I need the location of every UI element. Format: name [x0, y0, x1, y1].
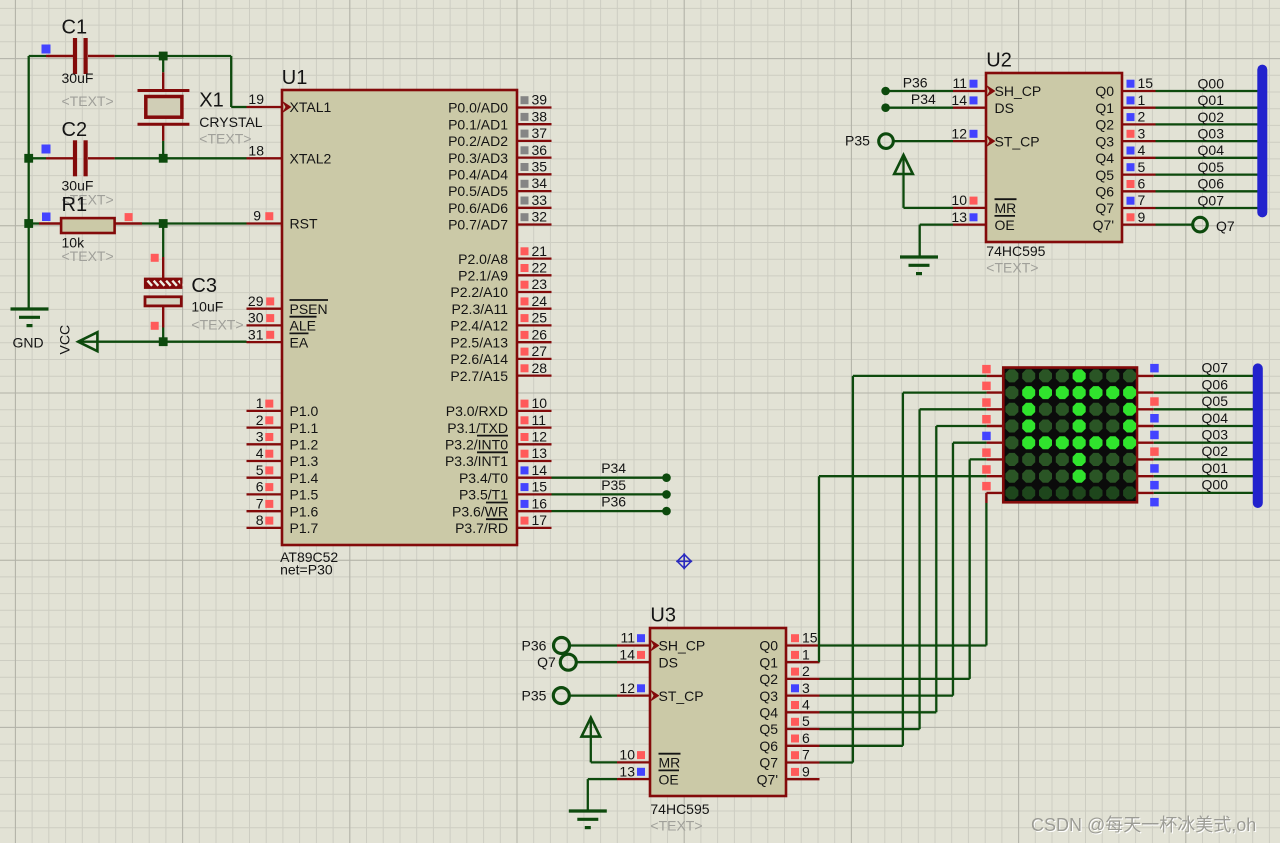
terminal Q7 out U2	[1156, 217, 1208, 232]
label U2	[986, 50, 1012, 72]
svg-text:P1.7: P1.7	[290, 520, 319, 536]
wire U2 Q7 to bus	[1156, 207, 1264, 209]
U1 pin P1.2 3	[247, 429, 319, 453]
U3 pin Q0 15	[759, 630, 819, 654]
svg-text:Q4: Q4	[759, 705, 778, 721]
U1 pin P2.5 26	[450, 326, 551, 350]
U3 pin Q6 6	[759, 730, 819, 754]
U2 pin Q5 5	[1095, 159, 1155, 183]
svg-text:29: 29	[248, 293, 264, 309]
U3 pin Q5 5	[759, 713, 819, 737]
svg-text:14: 14	[951, 92, 967, 108]
U1 pin XTAL2 18	[247, 143, 332, 167]
svg-text:24: 24	[532, 293, 548, 309]
svg-text:OE: OE	[659, 771, 679, 787]
U1 pin P3.5/T1 15	[459, 479, 552, 503]
svg-text:P0.6/AD6: P0.6/AD6	[448, 200, 508, 216]
svg-text:P0.1/AD1: P0.1/AD1	[448, 116, 508, 132]
wire net P35	[552, 490, 671, 499]
ground U2	[900, 225, 953, 274]
label P34	[601, 460, 626, 476]
label Q06	[1202, 376, 1229, 392]
svg-text:SH_CP: SH_CP	[659, 638, 706, 654]
svg-text:EA: EA	[290, 334, 309, 350]
svg-text:30: 30	[248, 310, 264, 326]
svg-text:net=P30: net=P30	[280, 562, 333, 578]
label R1	[62, 194, 88, 251]
label Q05	[1202, 393, 1229, 409]
U1 pin RST 9	[247, 208, 318, 232]
svg-text:5: 5	[256, 462, 264, 478]
svg-text:Q1: Q1	[759, 654, 778, 670]
U1 pin ALE 30	[247, 310, 317, 334]
U1 pin XTAL1 19	[247, 91, 332, 115]
U2 pin Q6 6	[1095, 176, 1155, 200]
ground GND	[11, 309, 49, 326]
svg-text:P2.2/A10: P2.2/A10	[450, 284, 508, 300]
svg-text:Q4: Q4	[1095, 150, 1114, 166]
label U3	[650, 605, 676, 627]
svg-text:DS: DS	[659, 654, 678, 670]
svg-text:12: 12	[619, 680, 635, 696]
label C3	[191, 275, 223, 315]
svg-text:3: 3	[802, 680, 810, 696]
label U1	[282, 67, 308, 89]
svg-text:Q05: Q05	[1202, 393, 1229, 409]
svg-text:VCC: VCC	[57, 325, 73, 355]
label C2 TEXT	[62, 192, 114, 208]
svg-text:28: 28	[532, 360, 548, 376]
svg-text:P35: P35	[522, 688, 547, 704]
wire net P36 to U2	[881, 87, 953, 96]
U3 pin OE 13	[617, 763, 679, 787]
C1 marker	[42, 45, 51, 54]
svg-text:15: 15	[1138, 75, 1154, 91]
U1 pin P3.2/INT0 12	[445, 429, 552, 453]
label C3 TEXT	[191, 317, 243, 333]
label X1 TEXT	[199, 131, 251, 147]
svg-text:9: 9	[1138, 209, 1146, 225]
LED matrix dots	[1005, 369, 1136, 499]
svg-text:Q06: Q06	[1202, 376, 1229, 392]
svg-text:Q02: Q02	[1198, 109, 1225, 125]
svg-text:P3.6/WR: P3.6/WR	[452, 503, 508, 519]
U1 pin P0.7 32	[448, 209, 551, 233]
C3 markers	[151, 254, 159, 330]
label U1 net=P30	[280, 562, 333, 578]
svg-text:Q5: Q5	[759, 721, 778, 737]
svg-text:U2: U2	[986, 50, 1012, 72]
wire U2 Q3 to bus	[1156, 140, 1264, 142]
svg-text:Q01: Q01	[1198, 92, 1225, 108]
label U3 TEXT	[650, 818, 702, 834]
svg-text:P1.5: P1.5	[290, 487, 319, 503]
svg-text:16: 16	[532, 495, 548, 511]
svg-text:C3: C3	[191, 275, 217, 297]
svg-text:C1: C1	[62, 17, 88, 39]
U2 pin Q1 1	[1095, 92, 1155, 116]
label Q04	[1202, 410, 1229, 426]
svg-text:39: 39	[532, 92, 548, 108]
svg-text:Q7: Q7	[1216, 218, 1235, 234]
chip U2 body	[986, 73, 1122, 242]
bus U2 outputs	[1257, 65, 1267, 218]
U1 pin P3.7/RD 17	[455, 512, 551, 536]
wire C2 row to XTAL2	[29, 157, 247, 159]
svg-text:Q2: Q2	[759, 671, 778, 687]
svg-text:Q01: Q01	[1202, 460, 1229, 476]
svg-text:P35: P35	[601, 477, 626, 493]
svg-text:Q07: Q07	[1202, 360, 1229, 376]
svg-text:OE: OE	[995, 217, 1015, 233]
wire U3 to matrix row6	[820, 459, 987, 679]
svg-text:Q6: Q6	[1095, 184, 1114, 200]
svg-text:17: 17	[532, 512, 548, 528]
svg-text:Q2: Q2	[1095, 117, 1114, 133]
svg-text:Q7': Q7'	[757, 771, 778, 787]
svg-text:P36: P36	[522, 638, 547, 654]
matrix left markers	[982, 365, 991, 491]
label U1 AT89C52	[280, 549, 338, 565]
svg-text:X1: X1	[199, 90, 223, 112]
U2 pin DS 14	[951, 92, 1014, 116]
wire net P34	[552, 473, 671, 482]
svg-text:9: 9	[253, 208, 261, 224]
C2 marker	[42, 145, 51, 154]
svg-text:MR: MR	[659, 755, 681, 771]
svg-text:Q03: Q03	[1198, 126, 1225, 142]
wire matrix row6 to bus	[1154, 458, 1260, 460]
svg-text:Q04: Q04	[1202, 410, 1229, 426]
U1 pin P0.4 35	[448, 159, 551, 183]
svg-text:U3: U3	[650, 605, 676, 627]
svg-text:Q05: Q05	[1198, 159, 1225, 175]
svg-text:2: 2	[802, 663, 810, 679]
label Q07	[1198, 192, 1225, 208]
wire net P34 to U2	[881, 103, 953, 112]
wire R1 row to RST	[29, 222, 247, 224]
svg-text:<TEXT>: <TEXT>	[62, 248, 114, 264]
svg-text:CRYSTAL: CRYSTAL	[199, 114, 262, 130]
U1 pin P1.7 8	[247, 512, 319, 536]
svg-text:11: 11	[952, 75, 967, 91]
matrix right pins	[1137, 376, 1154, 493]
svg-text:27: 27	[532, 343, 548, 359]
svg-text:SH_CP: SH_CP	[995, 83, 1042, 99]
U1 pin P1.6 7	[247, 495, 319, 519]
svg-text:4: 4	[802, 697, 810, 713]
svg-text:11: 11	[532, 412, 547, 428]
bus matrix outputs	[1253, 363, 1263, 508]
wire U3 to matrix row5	[820, 443, 987, 696]
U1 pin P3.4/T0 14	[459, 462, 552, 486]
svg-text:18: 18	[248, 143, 264, 159]
label Q02	[1198, 109, 1225, 125]
U1 pin P0.3 36	[448, 142, 551, 166]
watermark	[1031, 815, 1256, 835]
svg-text:P2.0/A8: P2.0/A8	[458, 251, 508, 267]
U1 pin P1.5 6	[247, 479, 319, 503]
svg-text:6: 6	[1138, 176, 1146, 192]
U1 pin P0.2 37	[448, 125, 551, 149]
label Q03	[1198, 126, 1225, 142]
svg-text:P0.7/AD7: P0.7/AD7	[448, 217, 508, 233]
svg-text:RST: RST	[290, 216, 318, 232]
U1 pin P3.6/WR 16	[452, 495, 552, 519]
U1 pin P0.0 39	[448, 92, 551, 116]
svg-text:PSEN: PSEN	[290, 301, 328, 317]
U1 pin P0.1 38	[448, 108, 551, 132]
svg-text:P1.6: P1.6	[290, 503, 319, 519]
svg-text:23: 23	[532, 276, 548, 292]
U1 pin P3.1/TXD 11	[447, 412, 551, 436]
svg-text:P1.0: P1.0	[290, 403, 319, 419]
svg-text:<TEXT>: <TEXT>	[62, 93, 114, 109]
wire left rail	[28, 56, 30, 309]
chip U1 body	[282, 90, 517, 545]
svg-text:Q6: Q6	[759, 738, 778, 754]
svg-text:P3.7/RD: P3.7/RD	[455, 520, 508, 536]
svg-text:1: 1	[1138, 92, 1146, 108]
U3 pin DS 14	[617, 646, 678, 670]
svg-text:U1: U1	[282, 67, 308, 89]
svg-text:33: 33	[532, 192, 548, 208]
svg-text:Q3: Q3	[1095, 133, 1114, 149]
svg-text:GND: GND	[13, 335, 44, 351]
svg-text:30uF: 30uF	[62, 70, 94, 86]
label P35	[601, 477, 626, 493]
svg-text:74HC595: 74HC595	[986, 243, 1045, 259]
svg-text:15: 15	[802, 630, 818, 646]
wire XTAL1 drop	[231, 56, 246, 107]
wire net P36	[552, 507, 671, 516]
label Q02	[1202, 443, 1229, 459]
terminal P35 U2	[879, 134, 953, 149]
svg-text:MR: MR	[995, 200, 1017, 216]
svg-text:P2.1/A9: P2.1/A9	[458, 268, 508, 284]
matrix left pins	[986, 376, 1003, 503]
svg-text:<TEXT>: <TEXT>	[986, 260, 1038, 276]
svg-text:P1.1: P1.1	[290, 420, 319, 436]
ground U3	[569, 779, 617, 828]
svg-text:P0.4/AD4: P0.4/AD4	[448, 167, 508, 183]
label GND	[13, 335, 44, 351]
U1 pin P1.3 4	[247, 445, 319, 469]
svg-text:P3.2/INT0: P3.2/INT0	[445, 437, 508, 453]
svg-text:15: 15	[532, 479, 548, 495]
label Q01	[1202, 460, 1229, 476]
svg-text:P1.4: P1.4	[290, 470, 319, 486]
svg-text:P3.0/RXD: P3.0/RXD	[446, 403, 508, 419]
svg-text:Q7: Q7	[537, 654, 556, 670]
svg-text:DS: DS	[995, 100, 1014, 116]
svg-text:5: 5	[802, 713, 810, 729]
wire matrix row2 to bus	[1154, 391, 1260, 393]
label C1	[62, 17, 94, 87]
wire matrix row1 to bus	[1154, 375, 1260, 377]
U2 pin OE 13	[951, 209, 1015, 233]
svg-text:P2.3/A11: P2.3/A11	[451, 301, 508, 317]
svg-text:P3.4/T0: P3.4/T0	[459, 470, 508, 486]
wire U2 Q1 to bus	[1156, 107, 1264, 109]
svg-text:31: 31	[248, 326, 264, 342]
R1 markers	[42, 213, 133, 222]
matrix right markers	[1150, 364, 1159, 507]
svg-text:Q02: Q02	[1202, 443, 1229, 459]
terminal Q7 U3	[560, 654, 617, 670]
wire U2 Q6 to bus	[1156, 190, 1264, 192]
svg-text:Q7': Q7'	[1093, 217, 1114, 233]
U1 pin P3.0/RXD 10	[446, 395, 552, 419]
label R1 TEXT	[62, 248, 114, 264]
power VCC U3	[582, 718, 618, 763]
svg-text:9: 9	[802, 763, 810, 779]
svg-text:6: 6	[802, 730, 810, 746]
U2 pin Q7 7	[1095, 192, 1155, 216]
svg-text:35: 35	[532, 159, 548, 175]
svg-text:<TEXT>: <TEXT>	[191, 317, 243, 333]
svg-text:Q00: Q00	[1202, 477, 1229, 493]
svg-text:Q0: Q0	[1095, 83, 1114, 99]
label U3 74HC595	[650, 801, 709, 817]
svg-text:ST_CP: ST_CP	[995, 133, 1040, 149]
capacitor C3	[145, 224, 183, 342]
power VCC U2	[894, 155, 953, 208]
svg-text:25: 25	[532, 310, 548, 326]
capacitor C2	[46, 140, 115, 176]
U1 pin P2.1 22	[458, 260, 551, 284]
svg-text:P1.3: P1.3	[290, 453, 319, 469]
svg-text:P36: P36	[601, 494, 626, 510]
svg-text:R1: R1	[62, 194, 88, 216]
label X1	[199, 90, 262, 131]
U1 pin P2.3 24	[451, 293, 551, 317]
label P34 U2	[911, 91, 936, 107]
svg-text:2: 2	[256, 412, 264, 428]
U3 pin Q7 7	[759, 747, 819, 771]
label C1 TEXT	[62, 93, 114, 109]
wire matrix row3 to bus	[1154, 408, 1260, 410]
U3 pin Q1 1	[759, 646, 819, 670]
U3 pin Q4 4	[759, 697, 819, 721]
U2 pin Q7' 9	[1093, 209, 1156, 233]
label Q04	[1198, 142, 1225, 158]
label Q7 out U2	[1216, 218, 1235, 234]
label VCC	[57, 325, 73, 355]
svg-text:12: 12	[951, 125, 967, 141]
U2 pin MR 10	[951, 192, 1016, 216]
U1 pin P1.4 5	[247, 462, 319, 486]
svg-text:P0.3/AD3: P0.3/AD3	[448, 150, 508, 166]
wire U2 Q2 to bus	[1156, 123, 1264, 125]
wire matrix row7 to bus	[1154, 475, 1260, 477]
label Q00	[1202, 477, 1229, 493]
terminal P35 U3	[553, 688, 617, 704]
svg-text:CSDN @每天一杯冰美式,oh: CSDN @每天一杯冰美式,oh	[1031, 815, 1256, 835]
svg-text:14: 14	[619, 646, 635, 662]
svg-text:5: 5	[1138, 159, 1146, 175]
label P35 U2	[845, 133, 870, 149]
wire U2 Q5 to bus	[1156, 173, 1264, 175]
label P36	[601, 494, 626, 510]
svg-text:26: 26	[532, 326, 548, 342]
svg-text:12: 12	[532, 429, 548, 445]
svg-text:7: 7	[256, 495, 264, 511]
svg-text:1: 1	[256, 395, 264, 411]
svg-text:Q5: Q5	[1095, 167, 1114, 183]
chip U3 body	[650, 628, 786, 796]
svg-text:P36: P36	[903, 75, 928, 91]
wire U3 to matrix row2	[820, 393, 987, 746]
svg-text:P34: P34	[911, 91, 936, 107]
label Q07	[1202, 360, 1229, 376]
label U2 TEXT	[986, 260, 1038, 276]
U1 pin PSEN 29	[247, 293, 329, 317]
U1 pin P0.6 33	[448, 192, 551, 216]
svg-text:22: 22	[532, 260, 548, 276]
crystal X1	[138, 56, 190, 158]
svg-text:38: 38	[532, 108, 548, 124]
svg-text:P3.5/T1: P3.5/T1	[459, 487, 508, 503]
wire U2 Q0 to bus	[1156, 90, 1264, 92]
svg-text:ALE: ALE	[290, 318, 316, 334]
svg-text:P3.3/INT1: P3.3/INT1	[445, 453, 508, 469]
svg-text:P2.5/A13: P2.5/A13	[450, 334, 508, 350]
svg-text:14: 14	[532, 462, 548, 478]
U1 pin P2.4 25	[450, 310, 551, 334]
svg-text:7: 7	[1138, 192, 1146, 208]
svg-text:10: 10	[532, 395, 548, 411]
svg-text:6: 6	[256, 479, 264, 495]
label C2	[62, 119, 94, 194]
svg-text:P1.2: P1.2	[290, 437, 319, 453]
U1 pin P1.1 2	[247, 412, 319, 436]
power VCC arrow	[78, 332, 97, 351]
label Q03	[1202, 427, 1229, 443]
svg-text:34: 34	[532, 175, 548, 191]
svg-text:37: 37	[532, 125, 548, 141]
label P36 U2	[903, 75, 928, 91]
label P35 U3	[522, 688, 547, 704]
wire U3 to matrix row1	[820, 376, 987, 763]
svg-text:Q1: Q1	[1095, 100, 1114, 116]
svg-text:8: 8	[256, 512, 264, 528]
svg-text:P35: P35	[845, 133, 870, 149]
wire matrix row5 to bus	[1154, 442, 1260, 444]
svg-text:P2.6/A14: P2.6/A14	[450, 351, 508, 367]
svg-text:Q3: Q3	[759, 688, 778, 704]
U2 pin Q2 2	[1095, 109, 1155, 133]
U1 pin EA 31	[247, 326, 309, 350]
svg-text:Q04: Q04	[1198, 142, 1225, 158]
svg-text:13: 13	[619, 763, 635, 779]
wire U3 Q1 to matrix row7	[819, 476, 987, 662]
svg-text:13: 13	[532, 445, 548, 461]
svg-text:74HC595: 74HC595	[650, 801, 709, 817]
svg-text:P2.4/A12: P2.4/A12	[450, 318, 508, 334]
U3 pin Q2 2	[759, 663, 819, 687]
svg-text:C2: C2	[62, 119, 88, 141]
svg-text:10: 10	[619, 747, 635, 763]
svg-text:Q06: Q06	[1198, 176, 1225, 192]
svg-text:Q03: Q03	[1202, 427, 1229, 443]
wire matrix row8 to bus	[1154, 492, 1260, 494]
origin marker	[676, 553, 692, 569]
svg-text:Q07: Q07	[1198, 192, 1225, 208]
U1 pin P2.0 21	[458, 243, 551, 267]
svg-text:4: 4	[1138, 142, 1146, 158]
U1 pin P0.5 34	[448, 175, 551, 199]
